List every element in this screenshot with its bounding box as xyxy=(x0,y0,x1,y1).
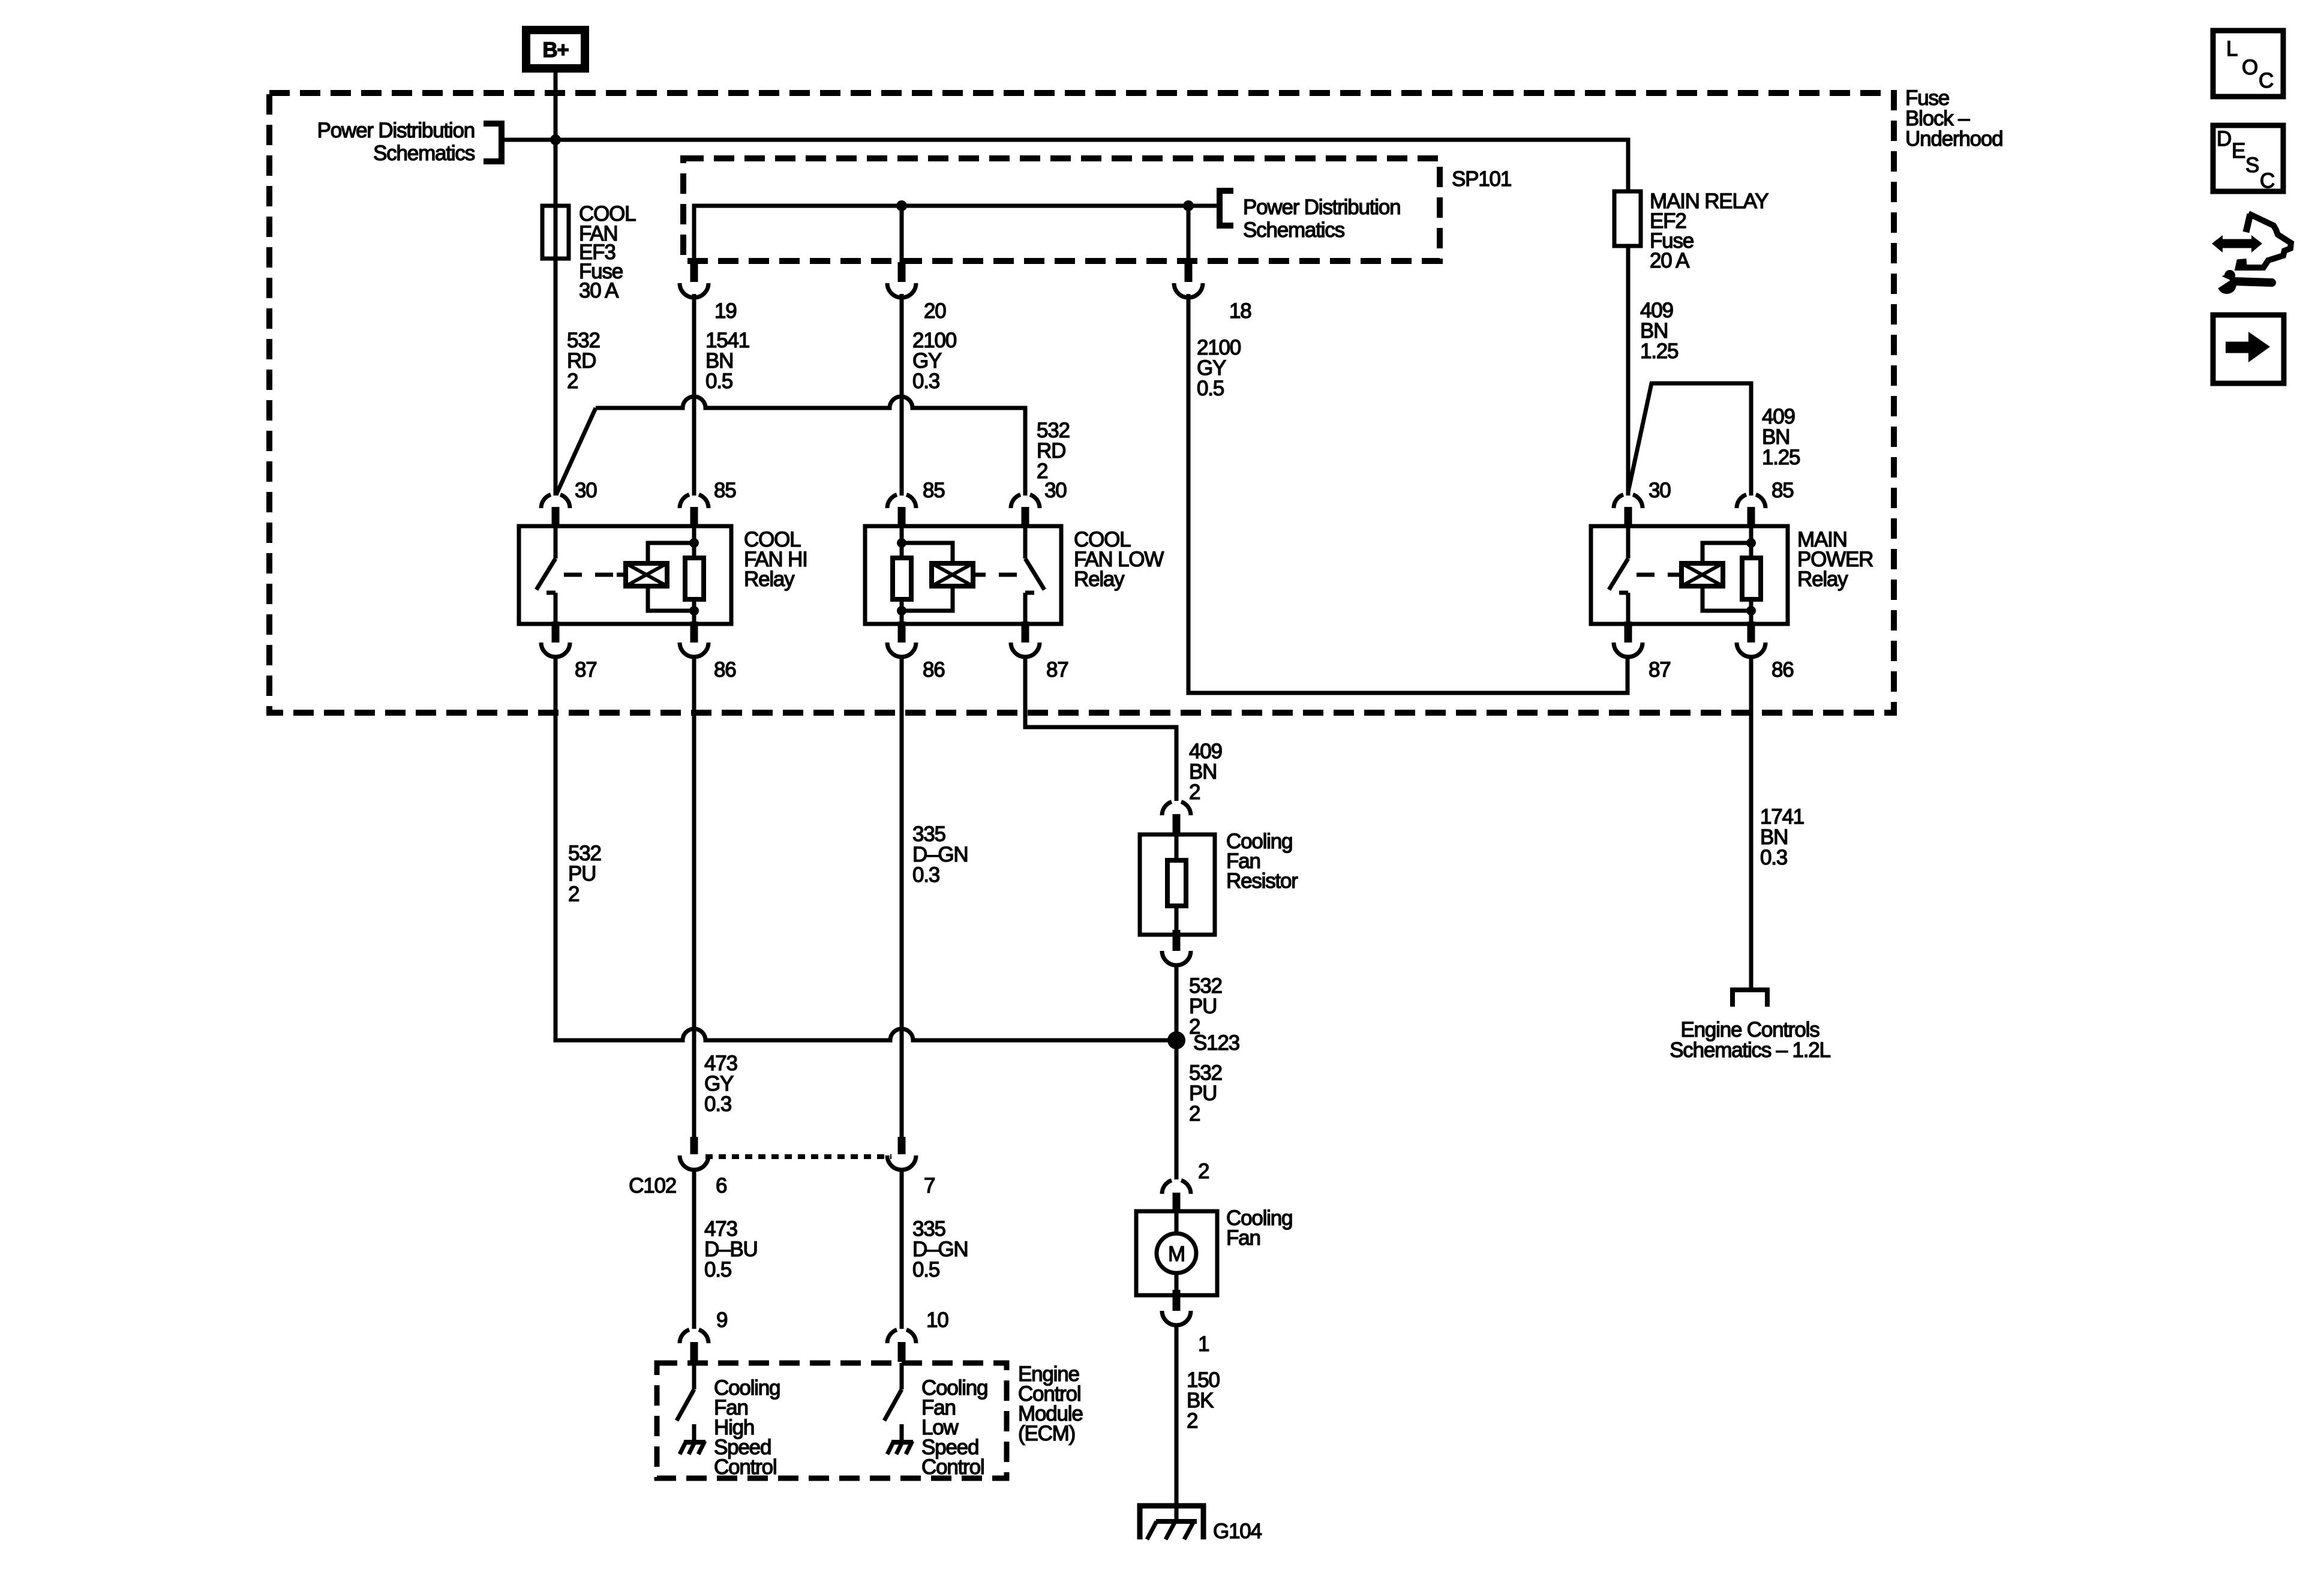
node relay K3 coil bottom xyxy=(1746,606,1756,616)
label Cooling Fan xyxy=(1226,1206,1292,1250)
relay K3 switch xyxy=(1609,528,1628,622)
node relay K2 coil bottom xyxy=(897,606,906,616)
connector relay K3 pin 30 xyxy=(1614,494,1643,527)
svg-text:85: 85 xyxy=(714,479,736,502)
wire S123 down to cooling fan xyxy=(1175,1040,1179,1179)
wire B+ down to relay pin 30 xyxy=(554,73,558,496)
connector cooling fan resistor top xyxy=(1162,801,1191,834)
svg-text:Schematics: Schematics xyxy=(1243,218,1345,242)
svg-text:1.25: 1.25 xyxy=(1640,340,1678,363)
relay K2 coil lead xyxy=(973,573,982,577)
connector SP101 pin 20 xyxy=(887,262,916,298)
fuse COOL FAN EF3 xyxy=(542,206,569,259)
wire SP101 19 to relay1 pin 85 xyxy=(692,294,696,496)
svg-text:2: 2 xyxy=(1189,1102,1200,1125)
label wire 2100 GY 0.5 xyxy=(1197,336,1241,400)
connector relay K2 pin 85 xyxy=(887,494,916,527)
label wire 409 BN 1.25 (right) xyxy=(1762,405,1800,469)
label Power Distribution Schematics (left) xyxy=(317,119,475,165)
wire SP101 20 to relay2 pin 85 xyxy=(900,294,904,496)
relay K3 coil lead xyxy=(1673,573,1682,577)
fuse block underhood dashed border xyxy=(269,93,1894,713)
svg-text:Relay: Relay xyxy=(1074,568,1125,591)
wire relay K1 86 down to C102 pin 6 xyxy=(692,657,696,1137)
relay K1 COOL FAN HI box xyxy=(519,526,731,624)
connector relay K1 pin 30 xyxy=(541,494,570,527)
node relay K2 coil top xyxy=(897,538,906,548)
label Power Distribution Schematics (SP101) xyxy=(1243,196,1400,242)
resistor element xyxy=(1167,860,1186,906)
relay K3 MAIN POWER box xyxy=(1591,526,1788,624)
svg-text:87: 87 xyxy=(575,658,597,682)
resistor relay K3 internal xyxy=(1742,558,1761,599)
wire horizontal feed to EF2 fuse xyxy=(505,140,1628,191)
connector cooling fan resistor bottom xyxy=(1162,930,1191,965)
wire relay K2 coil side internal xyxy=(900,526,904,624)
relay K1 coil loop wires xyxy=(648,543,694,611)
svg-text:C102: C102 xyxy=(629,1174,676,1197)
svg-text:D: D xyxy=(2217,127,2232,151)
off-page bracket Power Distribution Schematics (left) xyxy=(484,124,502,161)
connector SP101 pin 18 xyxy=(1174,262,1203,298)
wire C102 7 to ECM pin 10 xyxy=(900,1170,904,1329)
label Cooling Fan High Speed Control xyxy=(714,1376,780,1479)
relay K1 coil xyxy=(626,563,667,586)
connector SP101 pin 19 xyxy=(680,262,708,298)
wire C102 6 to ECM pin 9 xyxy=(692,1170,696,1329)
off-page pointer to Engine Controls xyxy=(1733,990,1767,1007)
wire diagonal branch to main relay pin 85 xyxy=(1628,383,1751,496)
svg-text:86: 86 xyxy=(1771,658,1794,682)
ECM low speed ground xyxy=(887,1441,913,1454)
connector C102 pin 6 xyxy=(680,1137,708,1170)
resistor relay K1 internal xyxy=(685,558,704,599)
connector cooling fan pin 1 xyxy=(1162,1290,1191,1325)
label MAIN RELAY EF2 Fuse 20 A xyxy=(1650,190,1768,272)
svg-text:30 A: 30 A xyxy=(579,279,619,302)
label wire 532 PU 2 (S123 to fan) xyxy=(1189,1061,1222,1125)
icon vehicle with arrow and wrench xyxy=(2211,214,2291,294)
node junction B+ wire / horizontal feed xyxy=(550,134,561,145)
B+ power symbol xyxy=(522,26,589,73)
relay K3 linkage dashes xyxy=(1637,573,1673,577)
wire relay K2 86 down to C102 pin 7 xyxy=(900,657,904,1137)
label wire 335 D-GN 0.5 xyxy=(912,1217,968,1281)
relay K2 coil xyxy=(932,563,973,586)
wire relay K3 86 down to engine controls xyxy=(1749,657,1753,987)
connector ECM pin 10 xyxy=(887,1329,916,1362)
icon DESC box xyxy=(2213,125,2283,193)
svg-text:6: 6 xyxy=(716,1174,726,1197)
svg-text:(ECM): (ECM) xyxy=(1018,1422,1075,1445)
connector relay K3 pin 86 xyxy=(1737,622,1765,657)
svg-text:S: S xyxy=(2245,154,2259,177)
wire SP101 pin 18 riser xyxy=(1187,206,1191,262)
connector C102 pin 7 xyxy=(887,1137,916,1170)
svg-text:Control: Control xyxy=(714,1455,776,1479)
relay K2 linkage dashes xyxy=(982,573,1017,577)
svg-text:C: C xyxy=(2260,169,2275,193)
svg-text:86: 86 xyxy=(714,658,736,682)
svg-text:2: 2 xyxy=(567,370,578,393)
svg-text:20: 20 xyxy=(924,299,946,323)
relay K2 COOL FAN LOW box xyxy=(865,526,1061,624)
svg-text:18: 18 xyxy=(1229,299,1251,323)
wire cooling fan to ground G104 xyxy=(1175,1325,1179,1522)
svg-text:0.3: 0.3 xyxy=(912,370,939,393)
svg-text:0.3: 0.3 xyxy=(912,863,939,887)
icon LOC box xyxy=(2213,31,2283,97)
label wire 1741 BN 0.3 xyxy=(1760,805,1804,869)
connector ECM pin 9 xyxy=(680,1329,708,1362)
svg-text:2: 2 xyxy=(568,882,579,906)
svg-text:1.25: 1.25 xyxy=(1762,446,1800,469)
svg-text:S123: S123 xyxy=(1193,1031,1239,1055)
fuse MAIN RELAY EF2 xyxy=(1614,191,1641,246)
node relay K3 coil top xyxy=(1746,538,1756,548)
wire SP101 pin 20 riser xyxy=(900,206,904,262)
icon arrow box xyxy=(2213,315,2284,383)
svg-text:Control: Control xyxy=(921,1455,984,1479)
relay K1 linkage dashes xyxy=(564,573,617,577)
svg-text:0.5: 0.5 xyxy=(1197,377,1224,400)
wire relay K3 coil side internal xyxy=(1749,526,1753,624)
label wire 532 PU 2 (K1 87) xyxy=(568,842,601,906)
SP101 dashed box xyxy=(683,158,1440,261)
svg-text:30: 30 xyxy=(1044,479,1067,502)
relay K1 switch xyxy=(536,528,556,622)
svg-text:Fan: Fan xyxy=(1226,1226,1260,1250)
svg-text:0.5: 0.5 xyxy=(705,370,732,393)
svg-text:O: O xyxy=(2242,56,2258,79)
label wire 2100 GY 0.3 xyxy=(912,329,957,393)
svg-text:B+: B+ xyxy=(542,38,569,62)
svg-text:E: E xyxy=(2232,139,2245,163)
svg-text:Power Distribution: Power Distribution xyxy=(317,119,475,142)
label wire 150 BK 2 xyxy=(1187,1368,1220,1433)
off-page bracket Power Distribution Schematics (SP101) xyxy=(1220,191,1233,226)
svg-text:0.3: 0.3 xyxy=(704,1092,731,1116)
connector relay K1 pin 86 xyxy=(680,622,708,657)
wire relay K2 87 down right to resistor xyxy=(1025,657,1176,801)
relay K3 coil loop wires xyxy=(1703,543,1751,611)
connector relay K2 pin 87 xyxy=(1011,622,1040,657)
wire inside resistor box xyxy=(1175,834,1179,935)
svg-text:2: 2 xyxy=(1198,1160,1209,1183)
motor circle M xyxy=(1157,1233,1196,1273)
relay K2 switch xyxy=(1025,528,1044,622)
ECM dashed box xyxy=(657,1363,1007,1478)
svg-text:20 A: 20 A xyxy=(1650,249,1690,272)
cooling fan resistor box xyxy=(1140,834,1215,935)
label Cooling Fan Resistor xyxy=(1226,830,1298,893)
label COOL FAN HI Relay xyxy=(744,528,807,591)
label Fuse Block - Underhood xyxy=(1905,86,2002,151)
dashed link C102 xyxy=(705,1154,891,1159)
wire SP101 internal bus xyxy=(694,206,1217,262)
label MAIN POWER Relay xyxy=(1797,528,1873,591)
wire resistor to S123 xyxy=(1175,965,1179,1040)
label wire 409 BN 2 xyxy=(1189,740,1222,804)
connector relay K1 pin 85 xyxy=(680,494,708,527)
svg-text:19: 19 xyxy=(714,299,737,323)
connector relay K2 pin 30 xyxy=(1011,494,1040,527)
svg-text:SP101: SP101 xyxy=(1452,167,1511,191)
resistor relay K2 internal xyxy=(893,558,911,599)
label wire 532 RD 2 (to relay2 30) xyxy=(1037,419,1070,483)
wire relay K1 coil side internal xyxy=(692,526,696,624)
label wire 532 PU 2 (resistor out) xyxy=(1189,974,1222,1038)
ground G104 symbol xyxy=(1140,1506,1203,1539)
label wire 473 GY 0.3 xyxy=(704,1052,737,1116)
relay K1 coil lead xyxy=(617,573,626,577)
svg-text:85: 85 xyxy=(1771,479,1794,502)
svg-text:Power Distribution: Power Distribution xyxy=(1243,196,1400,219)
node splice S123 xyxy=(1167,1031,1185,1049)
cooling fan motor box xyxy=(1136,1211,1217,1295)
svg-text:87: 87 xyxy=(1649,658,1671,682)
svg-text:30: 30 xyxy=(1649,479,1671,502)
connector cooling fan pin 2 xyxy=(1162,1180,1191,1212)
wire SP101 18 down to main relay 87 xyxy=(1188,294,1628,693)
node relay K1 coil top xyxy=(689,538,699,548)
svg-text:C: C xyxy=(2259,69,2274,92)
svg-text:0.3: 0.3 xyxy=(1760,846,1787,869)
svg-text:0.5: 0.5 xyxy=(704,1258,731,1281)
svg-text:85: 85 xyxy=(923,479,945,502)
svg-text:Schematics: Schematics xyxy=(373,142,475,165)
wire EF2 fuse down to main relay pin 30 xyxy=(1626,246,1631,496)
svg-text:Relay: Relay xyxy=(1797,568,1848,591)
svg-text:M: M xyxy=(1168,1242,1185,1266)
connector relay K3 pin 87 xyxy=(1614,622,1643,657)
svg-text:2: 2 xyxy=(1187,1409,1197,1433)
svg-text:L: L xyxy=(2226,37,2238,61)
wire inside motor box xyxy=(1175,1211,1179,1295)
svg-text:G104: G104 xyxy=(1213,1520,1262,1543)
wire horizontal branch to relay2 pin 30 (hops over 1157,1502) xyxy=(596,397,1025,496)
node junction SP101 pin 18 xyxy=(1183,200,1194,211)
svg-text:9: 9 xyxy=(716,1308,727,1332)
svg-text:7: 7 xyxy=(924,1174,935,1197)
relay K2 coil loop wires xyxy=(902,543,953,611)
connector relay K1 pin 87 xyxy=(541,622,570,657)
wire diagonal fuse EF3 branch to horizontal xyxy=(556,408,596,495)
ECM high speed driver switch xyxy=(677,1363,694,1442)
label Engine Control Module (ECM) xyxy=(1018,1362,1083,1445)
label wire 1541 BN 0.5 xyxy=(705,329,749,393)
wire relay K1 87 down and right to S123 (hops over 1157,1503) xyxy=(556,657,1176,1040)
svg-text:1: 1 xyxy=(1198,1332,1209,1356)
ECM high speed ground xyxy=(680,1441,705,1454)
svg-text:87: 87 xyxy=(1046,658,1068,682)
svg-text:86: 86 xyxy=(923,658,945,682)
relay K3 coil xyxy=(1682,563,1723,586)
node relay K1 coil bottom xyxy=(689,606,699,616)
label wire 409 BN 1.25 (left) xyxy=(1640,299,1678,363)
label wire 473 D-BU 0.5 xyxy=(704,1217,758,1281)
svg-text:Schematics – 1.2L: Schematics – 1.2L xyxy=(1670,1038,1830,1062)
svg-text:10: 10 xyxy=(926,1308,948,1332)
svg-text:Relay: Relay xyxy=(744,568,795,591)
ECM low speed driver switch xyxy=(884,1363,902,1442)
node junction SP101 pin 20 xyxy=(896,200,907,211)
svg-text:Resistor: Resistor xyxy=(1226,869,1298,893)
label Cooling Fan Low Speed Control xyxy=(921,1376,987,1479)
label Engine Controls Schematics - 1.2L xyxy=(1670,1018,1830,1062)
connector relay K3 pin 85 xyxy=(1737,494,1765,527)
svg-text:Underhood: Underhood xyxy=(1905,127,2002,151)
connector relay K2 pin 86 xyxy=(887,622,916,657)
svg-text:0.5: 0.5 xyxy=(912,1258,939,1281)
svg-text:30: 30 xyxy=(575,479,597,502)
label wire 335 D-GN 0.3 xyxy=(912,822,968,887)
svg-text:2: 2 xyxy=(1189,781,1200,804)
label COOL FAN EF3 Fuse 30 A xyxy=(579,202,636,302)
label wire 532 RD 2 (EF3 out) xyxy=(567,329,600,393)
label COOL FAN LOW Relay xyxy=(1074,528,1164,591)
